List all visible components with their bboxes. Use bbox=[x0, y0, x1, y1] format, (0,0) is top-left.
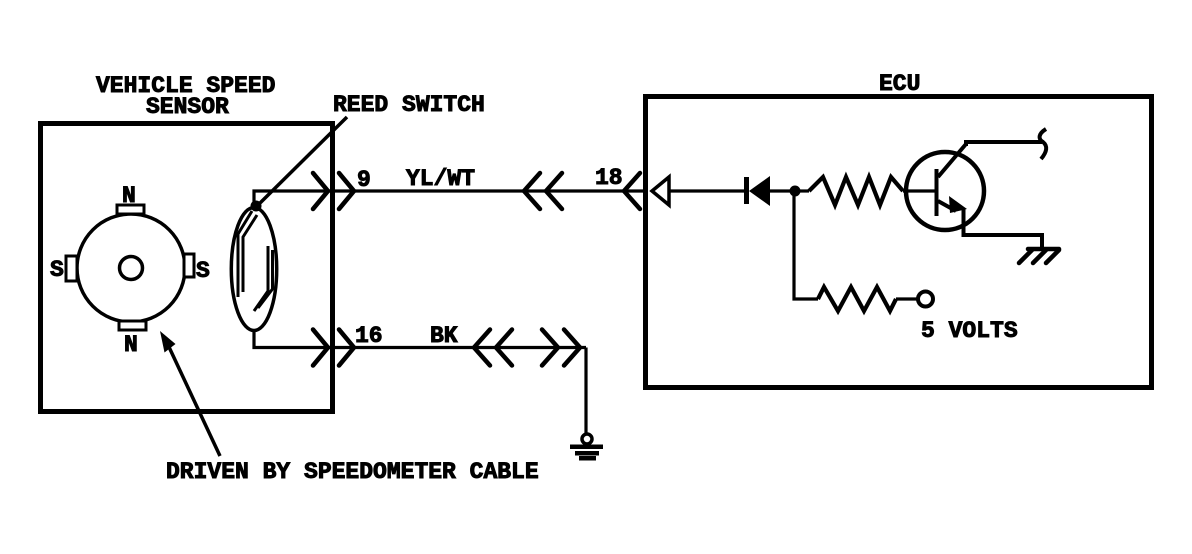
svg-text:5 VOLTS: 5 VOLTS bbox=[921, 318, 1018, 344]
pole tab N top bbox=[117, 205, 144, 214]
svg-text:S: S bbox=[196, 258, 210, 284]
svg-text:18: 18 bbox=[595, 165, 623, 191]
svg-text:N: N bbox=[124, 332, 138, 358]
connector chevrons at pin 16 (pointing right) bbox=[313, 330, 354, 366]
svg-text:YL/WT: YL/WT bbox=[406, 166, 475, 192]
transistor Q1 emitter arrowhead bbox=[949, 196, 967, 213]
ground symbol (ECU, hatched) bbox=[1019, 249, 1059, 263]
reed contact right blade bbox=[254, 246, 273, 311]
reed switch envelope ellipse bbox=[231, 208, 276, 331]
inline connector chevrons on YL/WT wire (pointing left) bbox=[524, 173, 562, 209]
wire: resistor R2 to terminal bbox=[896, 297, 917, 300]
svg-text:N: N bbox=[122, 183, 136, 209]
transistor Q1 emitter drop stroke bbox=[962, 208, 966, 234]
wire: drop down to chassis ground bbox=[584, 348, 587, 434]
wire: node to resistor R1 bbox=[795, 189, 809, 192]
svg-text:S: S bbox=[50, 257, 64, 283]
transistor Q1 base bar bbox=[935, 169, 939, 216]
svg-text:9: 9 bbox=[357, 167, 371, 193]
wire: collector up and right bbox=[966, 142, 1042, 146]
svg-text:SENSOR: SENSOR bbox=[146, 94, 229, 120]
resistor R2 (5 volt pull-up) bbox=[818, 287, 896, 311]
magnet rotor outer circle bbox=[77, 214, 185, 322]
connector chevrons at pin 9 (pointing right) bbox=[313, 173, 354, 209]
svg-text:16: 16 bbox=[355, 323, 383, 349]
magnet rotor hub circle bbox=[120, 257, 143, 280]
enclosure box: vehicle speed sensor bbox=[41, 124, 333, 412]
junction node dot bbox=[790, 186, 801, 197]
transistor Q1 emitter stroke bbox=[938, 201, 956, 211]
pole tab S left bbox=[66, 256, 77, 281]
resistor R1 (base series) bbox=[809, 177, 903, 205]
connector chevron at ECU pin 18 (pointing left) bbox=[624, 173, 640, 209]
connector triangle at pin 18 inside ECU bbox=[652, 177, 669, 205]
wire: resistor R1 to transistor base bbox=[903, 189, 935, 192]
enclosure box: ECU bbox=[646, 97, 1152, 388]
arrow leader: driven by speedometer cable bbox=[160, 331, 220, 456]
wire: reed switch top to pin 9 row bbox=[254, 191, 646, 207]
inline connector chevrons on BK wire (pointing left) bbox=[474, 330, 512, 366]
termination squiggle at collector wire end bbox=[1040, 129, 1047, 159]
svg-text:DRIVEN BY SPEEDOMETER CABLE: DRIVEN BY SPEEDOMETER CABLE bbox=[166, 459, 539, 485]
wire: triangle to diode bbox=[669, 189, 744, 192]
label: VEHICLE SPEED SENSOR bbox=[96, 73, 275, 120]
pole tab S right bbox=[184, 254, 194, 277]
diode D1 cathode bar bbox=[744, 177, 749, 204]
wire: node down to resistor R2 bbox=[794, 196, 818, 299]
svg-text:BK: BK bbox=[430, 323, 458, 349]
transistor Q1 collector stroke bbox=[938, 144, 966, 177]
leader line: reed switch pointer bbox=[257, 117, 347, 206]
inline connector chevrons on BK wire (pointing right) bbox=[542, 330, 580, 366]
reed contact left blade bbox=[238, 211, 257, 297]
transistor Q1 circle bbox=[906, 152, 984, 230]
wire: pin 16 row to ground drop bbox=[332, 346, 586, 349]
svg-text:REED SWITCH: REED SWITCH bbox=[333, 92, 485, 118]
diode D1 anode triangle bbox=[749, 176, 770, 206]
svg-text:ECU: ECU bbox=[879, 71, 920, 97]
pole tab N bottom bbox=[119, 321, 146, 330]
ground symbol (chassis, bottom) bbox=[570, 434, 603, 461]
wire: reed switch bottom to pin 16 row bbox=[254, 331, 332, 348]
wire: diode to node bbox=[770, 189, 795, 192]
junction dot: reed switch top terminal bbox=[251, 201, 262, 212]
wire: emitter down and right to ground bbox=[964, 232, 1043, 249]
terminal circle: 5 volts supply bbox=[918, 292, 933, 307]
